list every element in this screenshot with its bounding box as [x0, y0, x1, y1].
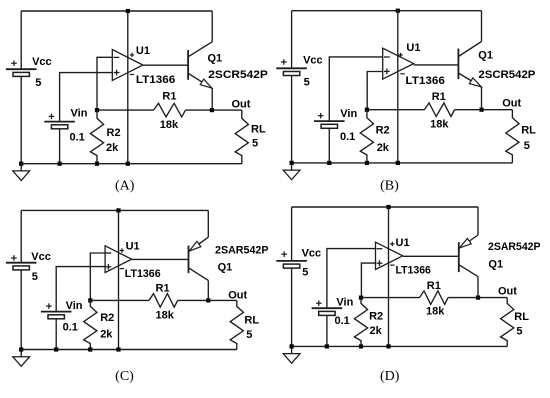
label U1 (A) [136, 45, 150, 57]
node: bottom rail / Vcc- junction (D) [290, 344, 294, 348]
battery source Vcc 5V (B) [276, 11, 307, 163]
resistor R1 18k (D) [420, 291, 449, 305]
value 5 (RL) (C) [246, 329, 252, 341]
svg-text:RL: RL [514, 311, 529, 323]
op-amp U1 inverting pin mark (A) [114, 56, 120, 58]
ground (C) [13, 350, 30, 367]
node: feedback junction R2/R1 (C) [88, 298, 92, 302]
svg-text:2k: 2k [377, 142, 390, 154]
svg-text:Q1: Q1 [478, 50, 493, 62]
node: bottom rail / R2 bottom junction (D) [359, 344, 363, 348]
svg-text:LT1366: LT1366 [406, 75, 445, 87]
value label LT1366 (A) [136, 74, 175, 86]
label R2 (D) [369, 310, 383, 322]
svg-text:Vin: Vin [340, 108, 357, 120]
svg-text:(B): (B) [380, 179, 399, 194]
svg-text:R2: R2 [369, 310, 383, 322]
ground (D) [283, 346, 300, 363]
svg-text:5: 5 [516, 325, 522, 337]
value 5 (RL) (B) [524, 140, 530, 152]
svg-text:U1: U1 [406, 42, 420, 54]
value label 2SAR542P (C) [215, 244, 269, 256]
node: top rail / op-amp V+ junction (B) [396, 9, 400, 13]
wire: op-amp inverting input to feedback node (C) [90, 253, 105, 300]
wire: feedback node row with R1 (B) [367, 109, 513, 111]
resistor RL 5 (B) [506, 110, 519, 163]
value 18k (C) [156, 310, 175, 322]
label R1 (C) [156, 283, 170, 295]
value label LT1366 (C) [125, 268, 161, 280]
node: bottom rail / Vcc- junction (B) [290, 161, 294, 165]
battery source Vin 0.1V (B) [314, 113, 345, 163]
svg-text:U1: U1 [396, 237, 410, 249]
transistor Q1 2SAR542P (C) [189, 210, 209, 300]
resistor R1 18k (B) [424, 103, 454, 117]
resistor R2 2k (C) [84, 300, 97, 349]
node: feedback junction R2/R1 (D) [359, 296, 363, 300]
label Q1 (A) [208, 52, 223, 64]
svg-text:(C): (C) [115, 369, 134, 384]
svg-text:Out: Out [502, 97, 521, 109]
battery source Vcc 5V (C) [6, 210, 37, 349]
label Vin (A) [71, 108, 88, 120]
value 5 (Vcc) (A) [35, 77, 41, 89]
node: bottom rail / op-amp V- junction (A) [126, 162, 130, 166]
node: bottom rail / op-amp V- junction (C) [116, 347, 120, 351]
svg-text:5: 5 [32, 271, 38, 283]
label RL (D) [514, 311, 529, 323]
label RL (B) [521, 125, 536, 137]
svg-text:Out: Out [232, 99, 251, 111]
node: Out junction (B) [479, 108, 483, 112]
svg-text:R1: R1 [156, 283, 170, 295]
value 18k (D) [426, 306, 445, 318]
wire: +V top rail (A) [21, 10, 212, 12]
svg-text:R1: R1 [432, 91, 446, 103]
transistor Q1 2SAR542P (D) [459, 207, 478, 298]
op-amp U1 LT1366 (B) [383, 11, 414, 163]
svg-text:U1: U1 [126, 240, 140, 252]
wire: +V top rail (D) [292, 206, 478, 208]
label RL (A) [251, 123, 266, 135]
svg-text:Vin: Vin [66, 300, 83, 312]
svg-text:RL: RL [521, 125, 536, 137]
svg-text:R2: R2 [376, 124, 390, 136]
op-amp U1 V- power pin mark (D) [390, 264, 394, 266]
resistor RL 5 (A) [235, 110, 248, 164]
label U1 (B) [406, 42, 420, 54]
label Vin (B) [340, 108, 357, 120]
node: bottom rail / Vin- junction (C) [54, 347, 58, 351]
resistor RL 5 (D) [501, 298, 514, 347]
wire: ground bottom rail (D) [292, 345, 508, 347]
svg-text:Vcc: Vcc [302, 248, 322, 260]
svg-text:18k: 18k [160, 119, 179, 131]
node: top rail / op-amp V+ junction (A) [126, 9, 130, 13]
node: feedback junction R2/R1 (B) [365, 108, 369, 112]
node: bottom rail / Vcc- junction (A) [19, 162, 23, 166]
label Vin (D) [336, 297, 353, 309]
value 0.1 (Vin) (D) [335, 315, 350, 327]
ground (A) [13, 164, 30, 181]
wire: ground bottom rail (C) [21, 349, 237, 351]
battery source Vcc 5V (D) [276, 207, 307, 346]
op-amp U1 V+ power pin mark (C) [120, 248, 124, 252]
transistor Q1 2SCR542P (A) [188, 11, 212, 110]
op-amp U1 V- power pin mark (B) [400, 73, 404, 75]
svg-text:2k: 2k [370, 325, 383, 337]
node: bottom rail / Vcc- junction (C) [19, 347, 23, 351]
node: bottom rail / op-amp V- junction (B) [396, 161, 400, 165]
op-amp U1 V+ power pin mark (D) [390, 242, 394, 246]
label R1 (D) [427, 280, 441, 292]
svg-text:18k: 18k [430, 119, 449, 131]
value 18k (B) [430, 119, 449, 131]
svg-text:18k: 18k [426, 306, 445, 318]
label Out (A) [232, 99, 251, 111]
label Vcc (C) [31, 251, 51, 263]
op-amp U1 V+ power pin mark (A) [130, 53, 134, 57]
value 2k (D) [370, 325, 383, 337]
value label 2SCR542P (B) [478, 69, 535, 81]
label U1 (C) [126, 240, 140, 252]
battery source Vcc 5V (A) [6, 11, 37, 164]
svg-text:0.1: 0.1 [63, 321, 78, 333]
wire: op-amp output to Q1 base (C) [132, 258, 189, 260]
op-amp U1 non-inverting pin mark (A) [114, 70, 120, 76]
svg-text:5: 5 [252, 137, 258, 149]
label Vcc (D) [302, 248, 322, 260]
value 5 (Vcc) (D) [302, 267, 308, 279]
node: Out junction (C) [206, 298, 210, 302]
node: bottom rail / R2 bottom junction (B) [365, 161, 369, 165]
label R1 (A) [162, 91, 176, 103]
svg-text:R1: R1 [162, 91, 176, 103]
svg-text:5: 5 [524, 140, 530, 152]
node: bottom rail / Vin- junction (D) [325, 344, 329, 348]
resistor R2 2k (A) [90, 110, 103, 164]
label R2 (C) [100, 312, 114, 324]
label RL (C) [244, 315, 259, 327]
node: bottom rail / op-amp V- junction (D) [386, 344, 390, 348]
svg-text:2k: 2k [106, 142, 119, 154]
svg-text:5: 5 [304, 76, 310, 88]
value 5 (RL) (A) [252, 137, 258, 149]
svg-text:Vin: Vin [336, 297, 353, 309]
svg-text:R1: R1 [427, 280, 441, 292]
op-amp U1 LT1366 (D) [376, 207, 403, 346]
wire: Vin+ to op-amp inverting input (B) [329, 57, 382, 121]
svg-text:0.1: 0.1 [70, 132, 85, 144]
label Q1 (B) [478, 50, 493, 62]
svg-text:Vcc: Vcc [31, 251, 51, 263]
node: bottom rail / R2 bottom junction (C) [88, 347, 92, 351]
svg-text:LT1366: LT1366 [125, 268, 161, 280]
wire: op-amp non-inverting input to feedback node (B) [367, 72, 383, 110]
node: Out junction (D) [476, 296, 480, 300]
svg-text:RL: RL [244, 315, 259, 327]
value 0.1 (Vin) (B) [340, 131, 355, 143]
label Out (D) [498, 286, 517, 298]
op-amp U1 V- power pin mark (A) [130, 74, 134, 76]
battery source Vin 0.1V (D) [312, 300, 343, 346]
op-amp U1 inverting pin mark (B) [384, 56, 390, 58]
value 2k (A) [106, 142, 119, 154]
wire: op-amp output to Q1 base (D) [403, 255, 459, 257]
op-amp U1 non-inverting pin mark (B) [384, 69, 390, 75]
wire: Vin+ to op-amp non-inverting input (C) [56, 267, 105, 312]
svg-text:RL: RL [251, 123, 266, 135]
value 18k (A) [160, 119, 179, 131]
caption (A) [115, 179, 135, 194]
value 2k (C) [100, 328, 113, 340]
svg-text:Q1: Q1 [488, 259, 503, 271]
svg-text:R2: R2 [107, 127, 121, 139]
wire: ground bottom rail (B) [292, 162, 513, 164]
label Q1 (D) [488, 259, 503, 271]
label Out (C) [228, 290, 247, 302]
svg-text:5: 5 [302, 267, 308, 279]
ground (B) [283, 163, 300, 180]
op-amp U1 LT1366 (A) [112, 11, 143, 164]
node: bottom rail / R2 bottom junction (A) [95, 162, 99, 166]
label U1 (D) [396, 237, 410, 249]
wire: feedback node row with R1 (A) [97, 109, 242, 111]
value label 2SCR542P (A) [208, 69, 267, 81]
label Q1 (C) [218, 261, 233, 273]
svg-text:5: 5 [246, 329, 252, 341]
value label 2SAR542P (D) [488, 241, 541, 253]
svg-text:2k: 2k [100, 328, 113, 340]
resistor R2 2k (B) [360, 110, 373, 163]
value 5 (RL) (D) [516, 325, 522, 337]
svg-text:5: 5 [35, 77, 41, 89]
wire: feedback node row with R1 (D) [361, 297, 507, 299]
svg-text:0.1: 0.1 [335, 315, 350, 327]
node: feedback junction R2/R1 (A) [95, 108, 99, 112]
svg-text:2SCR542P: 2SCR542P [478, 69, 535, 81]
value 0.1 (Vin) (A) [70, 132, 85, 144]
caption (B) [380, 179, 399, 194]
svg-text:U1: U1 [136, 45, 150, 57]
op-amp U1 V- power pin mark (C) [120, 268, 124, 270]
value label LT1366 (B) [406, 75, 445, 87]
wire: op-amp inverting input to feedback node (A) [97, 57, 112, 110]
value label LT1366 (D) [396, 265, 431, 277]
battery source Vin 0.1V (A) [44, 114, 75, 164]
node: top rail / op-amp V+ junction (C) [116, 208, 120, 212]
svg-text:Out: Out [228, 290, 247, 302]
wire: Vin+ to op-amp inverting input (D) [327, 249, 376, 309]
value 0.1 (Vin) (C) [63, 321, 78, 333]
label Vin (C) [66, 300, 83, 312]
svg-text:0.1: 0.1 [340, 131, 355, 143]
transistor Q1 2SCR542P (B) [458, 11, 481, 110]
label Vcc (B) [303, 55, 323, 67]
svg-text:18k: 18k [156, 310, 175, 322]
label Vcc (A) [32, 56, 52, 68]
value 2k (B) [377, 142, 390, 154]
wire: Vin+ to op-amp non-inverting input (A) [60, 73, 113, 122]
op-amp U1 V+ power pin mark (B) [398, 53, 402, 57]
node: top rail / op-amp V+ junction (D) [386, 205, 390, 209]
svg-text:Q1: Q1 [218, 261, 233, 273]
svg-text:2SAR542P: 2SAR542P [215, 244, 269, 256]
svg-text:Vin: Vin [71, 108, 88, 120]
svg-text:LT1366: LT1366 [396, 265, 431, 277]
label R2 (B) [376, 124, 390, 136]
op-amp U1 non-inverting pin mark (C) [106, 264, 112, 270]
wire: op-amp output to Q1 base (B) [414, 64, 459, 66]
op-amp U1 LT1366 (C) [105, 210, 132, 349]
op-amp U1 inverting pin mark (C) [106, 252, 112, 254]
svg-text:(A): (A) [115, 179, 135, 194]
wire: feedback node row with R1 (C) [90, 299, 237, 301]
svg-text:2SAR542P: 2SAR542P [488, 241, 541, 253]
svg-text:Vcc: Vcc [32, 56, 52, 68]
resistor RL 5 (C) [230, 300, 243, 349]
label Out (B) [502, 97, 521, 109]
value 5 (Vcc) (C) [32, 271, 38, 283]
svg-text:Vcc: Vcc [303, 55, 323, 67]
node: bottom rail / Vin- junction (B) [327, 161, 331, 165]
svg-text:2SCR542P: 2SCR542P [208, 69, 267, 81]
svg-text:(D): (D) [380, 369, 400, 384]
wire: op-amp non-inverting input to feedback node (D) [361, 263, 375, 298]
wire: op-amp output to Q1 base (A) [143, 64, 188, 66]
caption (D) [380, 369, 400, 384]
resistor R2 2k (D) [354, 298, 367, 347]
resistor R1 18k (C) [149, 294, 178, 308]
label R1 (B) [432, 91, 446, 103]
resistor R1 18k (A) [154, 103, 186, 117]
caption (C) [115, 369, 134, 384]
op-amp U1 non-inverting pin mark (D) [377, 260, 383, 266]
svg-text:LT1366: LT1366 [136, 74, 175, 86]
battery source Vin 0.1V (C) [41, 303, 72, 349]
wire: ground bottom rail (A) [21, 163, 242, 165]
svg-text:Q1: Q1 [208, 52, 223, 64]
label R2 (A) [107, 127, 121, 139]
svg-text:R2: R2 [100, 312, 114, 324]
value 5 (Vcc) (B) [304, 76, 310, 88]
wire: +V top rail (C) [21, 209, 208, 211]
op-amp U1 inverting pin mark (D) [377, 248, 383, 250]
wire: +V top rail (B) [292, 10, 482, 12]
svg-text:Out: Out [498, 286, 517, 298]
node: bottom rail / Vin- junction (A) [58, 162, 62, 166]
node: Out junction (A) [210, 108, 214, 112]
